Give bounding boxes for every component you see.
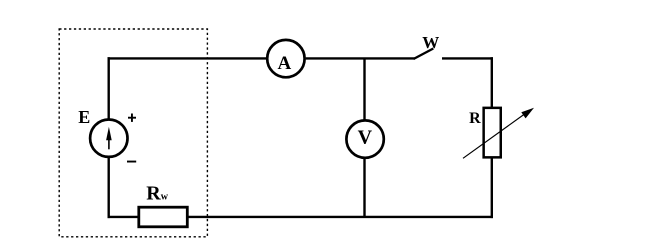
voltage source E (circle) (90, 120, 127, 157)
wire: left vertical lower (source bottom to corner) (107, 157, 109, 218)
label + (source positive) (128, 114, 136, 122)
wire: left vertical upper (corner to source top) (107, 57, 109, 119)
wire: ammeter right lead to switch pole (306, 57, 415, 59)
wire: voltmeter branch lower (V bottom to bottom wire junction) (363, 158, 365, 217)
wire: bottom-left segment (corner to Rw left lead) (108, 216, 140, 218)
resistor Rw (rectangle) (139, 207, 188, 227)
wire: switch throw to top-right corner (442, 57, 493, 59)
svg-text:W: W (422, 33, 439, 52)
wire: top-left horizontal (source top corner to ammeter) (108, 57, 267, 59)
dotted source boundary box (59, 29, 207, 237)
switch W blade (414, 49, 434, 60)
label minus (source negative) (127, 161, 136, 163)
ammeter A (circle) (267, 40, 304, 77)
voltmeter V (circle) (346, 120, 383, 157)
wire: bottom horizontal (Rw right lead to bottom-right corner) (187, 216, 493, 218)
wire: voltmeter branch upper (junction to V top) (363, 58, 365, 120)
resistor R (rectangle) (484, 108, 501, 158)
svg-text:A: A (278, 53, 292, 74)
wire: right vertical upper (corner to resistor R top) (491, 57, 493, 107)
resistor R variable arrow (463, 108, 534, 159)
svg-text:E: E (78, 107, 90, 127)
svg-text:R: R (469, 110, 481, 127)
svg-text:V: V (358, 127, 373, 149)
wire: right vertical lower (resistor R bottom to corner) (491, 158, 493, 218)
voltage source arrow (106, 127, 112, 150)
